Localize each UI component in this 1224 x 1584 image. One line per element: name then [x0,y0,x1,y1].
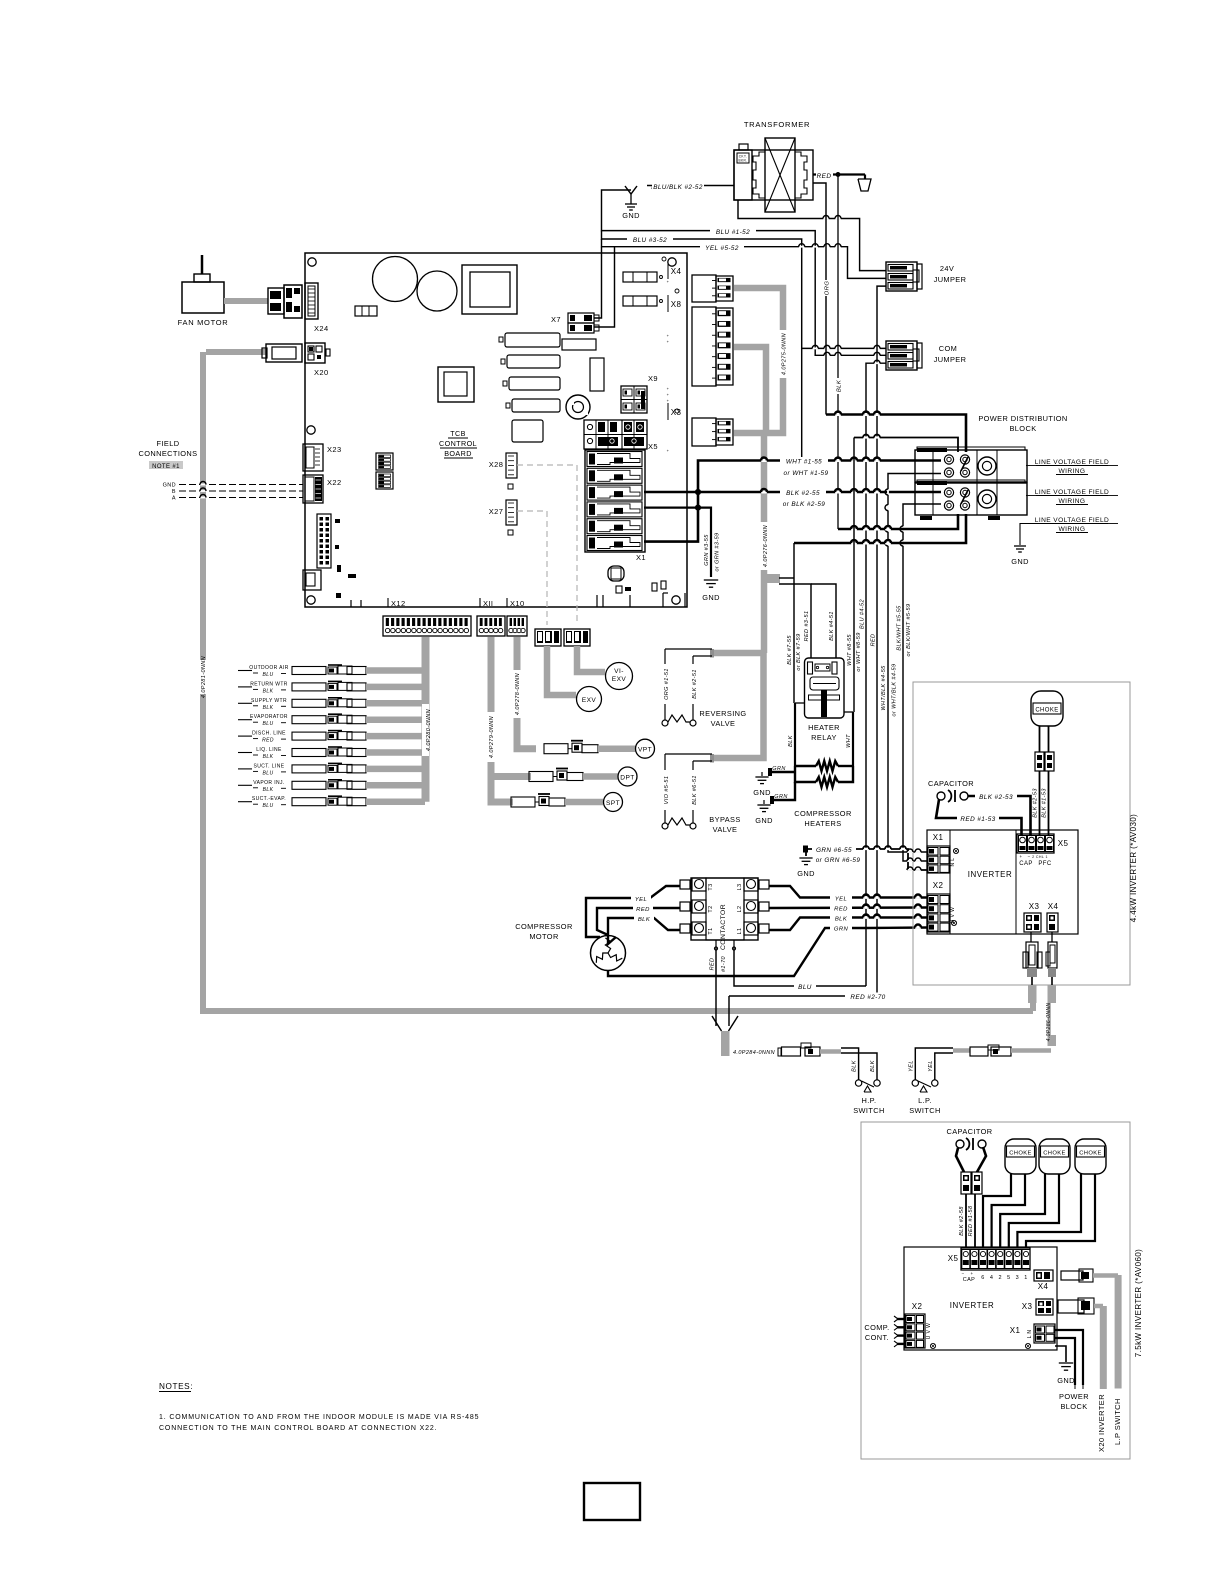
wires RS-485 GND B A [163,482,303,502]
svg-text:GND: GND [753,788,771,797]
label 4.4kW INVERTER (*AV030) [1129,814,1138,923]
svg-text:COMPRESSOR: COMPRESSOR [515,922,572,931]
svg-text:CAPACITOR: CAPACITOR [928,779,974,788]
svg-text:BLU #3-52: BLU #3-52 [633,237,667,244]
sensor SPT [511,793,623,812]
svg-text:+: + [667,279,670,284]
svg-text:4.0P286-0NNN: 4.0P286-0NNN [1046,1003,1052,1042]
svg-text:RED #3-51: RED #3-51 [804,611,810,642]
svg-text:3: 3 [1016,1275,1019,1281]
svg-text:WHT: WHT [846,734,852,748]
svg-text:X5: X5 [948,1254,959,1263]
svg-text:4.0P276-0NNN: 4.0P276-0NNN [763,525,769,567]
wire BLK #7-55 [787,543,802,703]
chokes 7.5kW [1005,1139,1106,1174]
svg-text:X3: X3 [1029,902,1040,911]
svg-text:BLK #7-55: BLK #7-55 [787,635,793,665]
wire RED #1-70 [710,947,728,1026]
svg-text:CONT.: CONT. [865,1333,889,1342]
svg-text:−: − [1027,854,1030,859]
labels X12 XII X10 [388,598,525,608]
board relays row [499,333,560,442]
label TCB CONTROL BOARD [439,429,477,458]
connector X3 [668,403,733,446]
svg-text:NOTES:: NOTES: [159,1382,193,1391]
svg-text:X24: X24 [314,324,329,333]
svg-text:4: 4 [990,1275,993,1281]
svg-text:BLK #2-58: BLK #2-58 [959,1206,965,1236]
svg-text:GND: GND [797,869,815,878]
svg-text:BLK: BLK [788,735,794,747]
valve VI-EXV [564,629,633,690]
svg-text:JUMPER: JUMPER [934,275,967,284]
svg-text:RED: RED [262,738,274,744]
svg-text:BLU #1-52: BLU #1-52 [716,229,750,236]
svg-text:6: 6 [981,1275,984,1281]
wire BLU/BLK #2-52 [647,182,734,191]
harness stub 4.0P276 tap [764,574,780,583]
label compressor heaters [794,809,851,828]
svg-text:CAPACITOR: CAPACITOR [946,1127,992,1136]
sensor EVAPORATOR [238,714,425,727]
connector 7.5kW X5 [948,1248,1030,1283]
svg-text:VAPOR INJ.: VAPOR INJ. [253,780,284,786]
switch L.P. SWITCH [908,1048,953,1115]
svg-text:RETURN WTR: RETURN WTR [250,681,288,687]
svg-text:BYPASS: BYPASS [709,815,740,824]
connectors inverter X3 X4 [1024,902,1058,932]
svg-text:or WHT #8-59: or WHT #8-59 [856,632,862,671]
svg-text:VI-: VI- [614,668,624,675]
svg-text:NOTE #1: NOTE #1 [152,464,180,470]
wire YEL #5-52 [602,239,887,278]
svg-text:WHT #8-55: WHT #8-55 [847,634,853,666]
svg-text:X2: X2 [933,881,944,890]
svg-text:4.0P275-0NNN: 4.0P275-0NNN [782,333,788,375]
svg-text:GRN: GRN [774,794,787,800]
wire BLK to PDB lower [838,514,958,531]
svg-text:BLK: BLK [263,705,274,711]
svg-text:X4: X4 [1048,902,1059,911]
svg-text:VALVE: VALVE [711,719,736,728]
wires chokes to X5 [983,1174,1095,1248]
wire X20 harness [206,349,266,355]
svg-text:BLK #2-53: BLK #2-53 [979,794,1013,801]
svg-text:2: 2 [998,1275,1001,1281]
svg-text:RED: RED [710,958,716,971]
wire harness 4.0P275 [734,288,783,433]
svg-text:TCB: TCB [450,429,466,438]
svg-text:RED: RED [834,907,848,913]
svg-text:COM: COM [939,344,957,353]
svg-text:1: 1 [1024,1275,1027,1281]
wire RED #3-51 [779,584,811,658]
valve reversing valve [661,649,747,728]
board bottom tabs [351,593,685,607]
svg-text:T1: T1 [708,927,714,934]
connector X8 [668,289,733,386]
svg-text:ORG #1-51: ORG #1-51 [664,668,670,700]
label 4.0P278-0NNN [514,670,522,718]
wire ORG vertical [813,183,831,415]
svg-text:GRN #6-55: GRN #6-55 [816,847,852,854]
wire fan motor harness [224,298,268,304]
connector fan motor plug [268,285,302,318]
svg-text:CAP: CAP [963,1277,976,1283]
svg-text:RED: RED [817,173,832,180]
svg-text:X5: X5 [648,442,658,451]
wire RED #2-70 [729,993,891,1027]
svg-text:BLK #1-53: BLK #1-53 [1042,788,1048,818]
svg-text:COMP.: COMP. [864,1323,889,1332]
svg-text:5: 5 [1007,1275,1010,1281]
wire WHT #1-55 [644,457,941,542]
resistor compressor heater 1 [795,761,853,771]
svg-text:CHOKE: CHOKE [1035,708,1058,714]
plugs below X3 X4 [1023,932,1057,985]
svg-text:+: + [1019,854,1022,859]
valve bypass valve [661,754,741,834]
svg-text:#1-70: #1-70 [721,955,727,972]
connector 7.5kW X3 [1022,1298,1107,1389]
svg-text:CHOKE: CHOKE [1079,1151,1102,1157]
svg-text:L3: L3 [737,884,743,891]
connector X5 block [584,420,658,451]
wire contactor BLK [769,914,927,930]
svg-text:BLK #6-51: BLK #6-51 [692,775,698,805]
sensor VPT [544,739,655,758]
connector X22 [303,475,342,503]
svg-text:L N: L N [1027,1330,1033,1339]
svg-text:WHT/BLK #4-55: WHT/BLK #4-55 [881,665,887,711]
svg-text:X8: X8 [671,300,682,309]
svg-text:VPT: VPT [638,747,652,754]
svg-text:OUTDOOR AIR: OUTDOOR AIR [249,665,288,671]
relay heater relay [805,658,845,742]
wire to X7 pin2 [594,247,615,327]
svg-text:INVERTER: INVERTER [968,870,1013,879]
wire harness 4.0P279 [491,637,531,802]
sensor SUPPLY WTR [238,698,425,711]
label line voltage field wiring 3 with ground [1011,517,1118,566]
svg-text:BLK #4-51: BLK #4-51 [829,611,835,641]
label 4.0P276-0NNN [761,522,770,570]
svg-text:INVERTER: INVERTER [950,1301,995,1310]
connector X20 [262,343,330,377]
TCB control board outline [305,253,687,607]
svg-text:4.0P280-0NNN: 4.0P280-0NNN [426,709,432,751]
svg-text:CONNECTION TO THE MAIN CONTROL: CONNECTION TO THE MAIN CONTROL BOARD AT … [159,1425,437,1432]
wire BLK #7 tap [779,577,794,579]
svg-text:BLU: BLU [263,672,274,678]
wires 7.5kW X1 to power block [1055,1330,1083,1389]
svg-text:1. COMMUNICATION TO AND FROM T: 1. COMMUNICATION TO AND FROM THE INDOOR … [159,1414,479,1421]
svg-text:X23: X23 [327,445,342,454]
svg-text:XII: XII [483,599,493,608]
wire sensor trunk 4.0P280 [422,637,430,802]
svg-text:H.P.: H.P. [861,1096,876,1105]
svg-text:BLU: BLU [263,770,274,776]
svg-text:LINE VOLTAGE FIELD: LINE VOLTAGE FIELD [1035,459,1109,466]
wire RED with wire nut [813,171,871,191]
svg-text:BLK/WHT #5-55: BLK/WHT #5-55 [897,605,903,651]
svg-text:REVERSING: REVERSING [699,709,746,718]
svg-text:HEATERS: HEATERS [804,819,841,828]
svg-text:RED #1-58: RED #1-58 [968,1205,974,1236]
svg-text:X27: X27 [489,507,504,516]
label FIELD CONNECTIONS [138,439,197,470]
sensor SUCT. LINE [238,763,425,776]
svg-text:or BLK #2-59: or BLK #2-59 [783,501,826,508]
svg-text:X5: X5 [1058,839,1069,848]
wire BLU [734,947,866,991]
svg-text:EVAPORATOR: EVAPORATOR [250,714,288,720]
svg-text:X1: X1 [636,553,646,562]
connector COM jumper [886,341,966,370]
svg-text:LIQ. LINE: LIQ. LINE [256,747,282,753]
svg-text:X28: X28 [489,460,504,469]
board buzzer [566,395,590,419]
resistor compressor heater 2 [795,766,853,787]
svg-text:or BLK #7-59: or BLK #7-59 [796,633,802,670]
wire motor YEL [586,886,680,937]
board bottom parts [608,566,666,593]
wire relay right to heaters [844,712,853,766]
wire BLU #3-52 [602,231,887,461]
label compressor motor [515,922,572,941]
wire to PDB pin2 [854,435,958,452]
connector X9 [621,374,658,413]
wire BLK #2-55 [644,489,941,509]
svg-text:4.0P281-0NNN: 4.0P281-0NNN [201,656,207,698]
connector X1 [585,450,646,562]
svg-text:4.4kW INVERTER (*AV030): 4.4kW INVERTER (*AV030) [1129,814,1138,923]
svg-text:GRN #3-55: GRN #3-55 [704,534,710,566]
connector 24V jumper [886,262,966,291]
connector X28 [489,453,517,489]
wire WHT #8-55 [847,438,862,713]
connector small bottom left [303,570,321,590]
svg-text:X4: X4 [671,267,682,276]
label NOTES [159,1382,193,1392]
fan motor [178,255,229,327]
board relay module [438,367,474,402]
svg-text:X2: X2 [912,1302,923,1311]
svg-text:SUCT.-EVAP.: SUCT.-EVAP. [252,796,286,802]
switch H.P. SWITCH [841,1048,885,1115]
sensor DISCH. LINE [238,731,425,744]
connector XII strip [477,616,505,636]
svg-text:RED #1-53: RED #1-53 [960,816,995,823]
svg-text:POWER DISTRIBUTION: POWER DISTRIBUTION [978,414,1067,423]
svg-text:BLK: BLK [837,379,843,392]
wire GRN #6-55 with ground [797,846,927,879]
inverter 7.5kW body [904,1247,1057,1350]
wire BLU #1-52 [602,190,887,356]
svg-text:4.0P279-0NNN: 4.0P279-0NNN [489,716,495,758]
svg-text:BLU: BLU [263,721,274,727]
board transformer module [462,265,517,314]
label power distribution block [978,414,1067,433]
wire main gray harness 4.0P281 [203,352,1033,1011]
svg-text:GRN: GRN [834,927,849,933]
svg-text:or BLK/WHT #5-59: or BLK/WHT #5-59 [906,604,912,657]
svg-text:X9: X9 [648,374,658,383]
wire harness 4.0P278 [517,637,536,749]
capacitor 7.5kW [946,1127,992,1248]
svg-text:BLK: BLK [852,1060,858,1072]
svg-text:L1: L1 [737,928,743,935]
svg-text:YEL: YEL [635,897,647,903]
wire WHT/BLK #4-55 [881,474,941,853]
label 7.5kW INVERTER (*AV060) [1134,1249,1143,1358]
svg-text:GND: GND [1057,1376,1075,1385]
wire motor RED [597,904,680,935]
svg-text:RED #2-70: RED #2-70 [850,994,885,1001]
harness funnel 4.0P284 [712,1016,738,1056]
svg-text:X10: X10 [510,599,525,608]
svg-text:VALVE: VALVE [713,825,738,834]
connector LP switch plug [953,1045,1051,1056]
svg-text:BLU: BLU [263,803,274,809]
inverter 4.4kW body [927,830,1078,934]
svg-text:4.0P284-0NNN: 4.0P284-0NNN [733,1050,775,1056]
wire contactor YEL [769,886,927,903]
enclosure 7.5kW inverter box [861,1122,1130,1459]
svg-text:BKR.: BKR. [738,159,747,163]
power distribution block unit 1 [915,447,1027,482]
svg-text:BLU #4-52: BLU #4-52 [860,599,866,629]
wire transformer to 24V jumper pin1 [738,200,886,271]
ground 7.5kW inverter [1055,1346,1075,1385]
svg-text:BLK: BLK [263,688,274,694]
svg-text:EXV: EXV [612,676,627,683]
svg-text:BLK #2-51: BLK #2-51 [692,669,698,699]
svg-text:BLK #2-53: BLK #2-53 [1033,788,1039,818]
svg-text:CONTROL: CONTROL [439,439,477,448]
wire to X7 pin1 [594,247,602,318]
wire GRN #3-55 to ground [644,508,721,602]
sensor RETURN WTR [238,681,425,694]
wire dashed X27 to EXV [517,511,547,625]
power distribution block unit 2 [915,480,1027,520]
svg-text:X1: X1 [933,833,944,842]
svg-text:L2: L2 [737,906,743,913]
svg-text:WIRING: WIRING [1059,526,1086,533]
svg-text:BLK #2-55: BLK #2-55 [786,490,820,497]
svg-text:SUCT. LINE: SUCT. LINE [254,763,285,769]
svg-text:GND: GND [163,483,176,489]
ground compressor heater 1 [753,766,795,797]
ground compressor heater 2 [755,782,795,825]
svg-text:X22: X22 [327,478,342,487]
svg-text:BLOCK: BLOCK [1009,424,1036,433]
transformer label [744,120,810,129]
svg-text:HEATER: HEATER [808,723,840,732]
svg-text:RELAY: RELAY [811,733,837,742]
svg-text:+: + [970,1271,973,1276]
note 1 text [159,1414,479,1432]
svg-text:+: + [667,386,670,391]
svg-text:or GRN #6-59: or GRN #6-59 [816,857,861,864]
svg-text:BLK: BLK [263,787,274,793]
svg-text:or WHT #1-59: or WHT #1-59 [784,470,829,477]
svg-text:BLK: BLK [870,1060,876,1072]
sensor SUCT.-EVAP. [238,796,425,809]
svg-text:+: + [667,392,670,397]
sensor VAPOR INJ. [238,780,425,793]
svg-text:RED: RED [871,634,877,647]
connector 7.5kW X1 [1010,1324,1055,1349]
svg-text:X20: X20 [314,368,329,377]
svg-text:SPT: SPT [606,800,620,807]
wire dashed X28 to VI-EXV [517,465,577,625]
connector X27 [489,500,517,535]
board fuses [623,272,663,306]
svg-text:MOTOR: MOTOR [529,932,558,941]
wire relay left to heaters [788,703,805,766]
svg-text:CHOKE: CHOKE [1009,1151,1032,1157]
wire BLK vertical [835,175,843,530]
svg-text:2 CHL 1: 2 CHL 1 [1032,855,1048,859]
svg-text:B: B [172,489,176,495]
svg-text:CAP: CAP [1019,861,1033,867]
svg-text:SWITCH: SWITCH [909,1106,941,1115]
svg-text:BOARD: BOARD [444,449,472,458]
wire motor BLK [608,914,680,944]
svg-text:LINE VOLTAGE FIELD: LINE VOLTAGE FIELD [1035,489,1109,496]
svg-text:WIRING: WIRING [1059,498,1086,505]
svg-text:X7: X7 [551,315,561,324]
svg-text:X12: X12 [391,599,406,608]
board DIP switches [376,453,393,489]
capacitor 4.4kW [928,779,1031,836]
transformer T1 [734,138,813,212]
board small parts left [335,519,356,598]
svg-text:PFC: PFC [1038,861,1051,867]
wire motor common GRN [608,928,866,976]
svg-text:RED: RED [636,907,650,913]
connector IDC header [317,514,331,568]
svg-text:X1: X1 [1010,1326,1021,1335]
wire contactor RED [769,904,927,913]
svg-text:+: + [667,339,670,344]
wire WHT #8 feed [794,514,966,545]
label 4.0P281-0NNN [200,656,208,698]
board component row [355,306,377,316]
svg-text:CONTACTOR: CONTACTOR [720,904,727,950]
svg-text:DISCH. LINE: DISCH. LINE [252,731,286,737]
svg-text:JUMPER: JUMPER [934,355,967,364]
enclosure 4.4kW inverter box [913,682,1130,985]
labels X20 INVERTER / LP SWITCH [1097,1394,1122,1452]
svg-text:X4: X4 [1038,1282,1049,1291]
valve EXV [535,629,602,712]
sensor DPT [529,767,637,786]
svg-text:L.P.: L.P. [918,1096,932,1105]
svg-text:U V W: U V W [926,1323,932,1339]
connector inverter X1 [927,833,959,873]
label 4.0P279-0NNN [488,712,496,762]
svg-text:+: + [667,448,670,453]
board edge ticks [667,279,670,453]
svg-text:or GRN #3-59: or GRN #3-59 [715,532,721,571]
wire harness 4.0P276 [710,430,764,763]
svg-text:YEL: YEL [908,1060,914,1072]
label line voltage field wiring 2 [1026,489,1118,505]
svg-text:POWER: POWER [1059,1392,1089,1401]
board mount holes [307,258,680,604]
